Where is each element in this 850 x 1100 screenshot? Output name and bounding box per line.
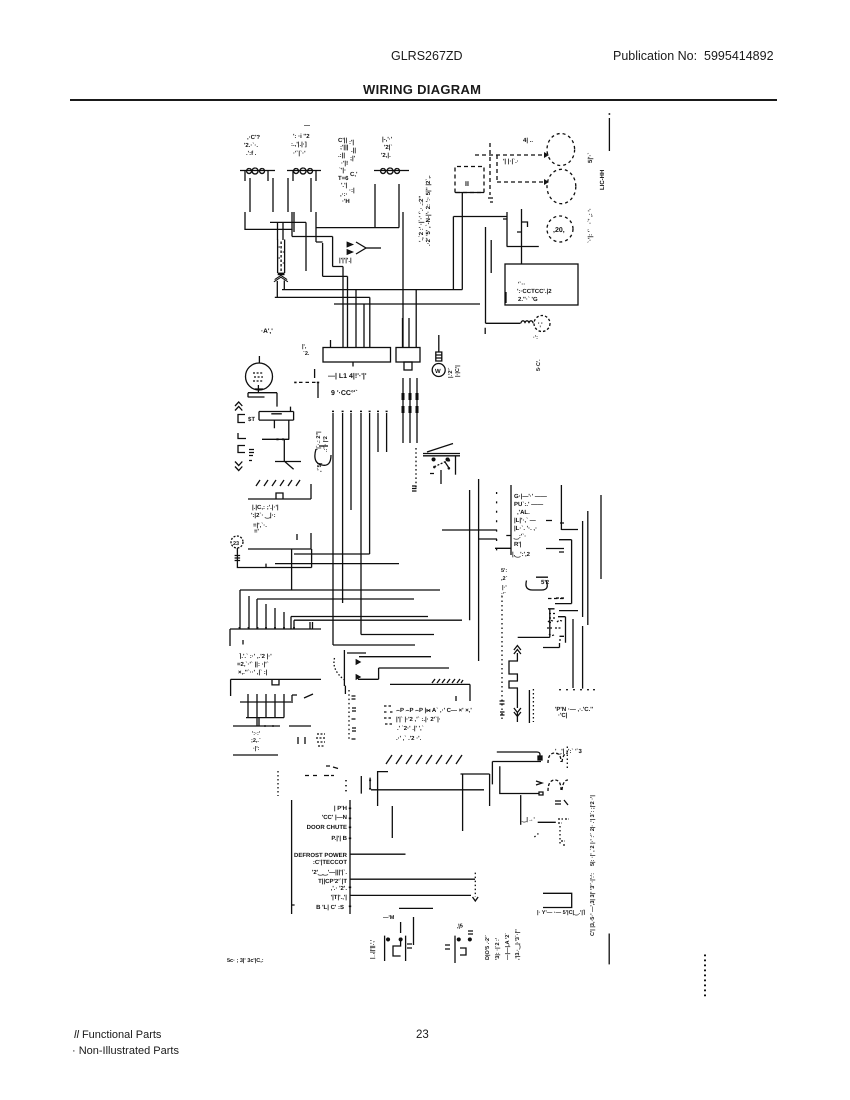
- wire right long v2: [587, 511, 589, 625]
- wire ice maker drops: [453, 193, 462, 290]
- connector tail marks: [305, 766, 338, 776]
- svg-text:'3|: ·|`2 :': '3|: ·|`2 :': [494, 937, 501, 960]
- relay equal marks: [555, 800, 568, 805]
- thermal fuse body: [436, 352, 442, 361]
- svg-text:'| |·|`.·: '| |·|`.·: [503, 158, 519, 165]
- label SI rotated: [587, 153, 606, 224]
- svg-text:—'M: —'M: [383, 915, 395, 921]
- svg-text:|',: |',: [302, 344, 307, 350]
- svg-text:‿:'`·: ‿:'`·: [513, 533, 526, 540]
- svg-text:.:||: .:||: [338, 152, 345, 159]
- wire mesh risers: [323, 243, 370, 348]
- wire CN-B risers: [403, 290, 417, 348]
- heater arrows symbol: [347, 242, 353, 255]
- harness splice blobs: [403, 393, 417, 413]
- footer functional parts note: [74, 1029, 161, 1041]
- svg-text:5':: 5':: [501, 568, 507, 574]
- svg-text:'2'‿‿'—|||'|`.: '2'‿‿'—|||'|`.: [312, 869, 347, 876]
- svg-text:`'|·: `'|·: [339, 167, 346, 174]
- run capacitor text column: [338, 137, 350, 205]
- wire damper pins: [262, 420, 289, 461]
- door switch conn label rotated: [370, 939, 376, 959]
- svg-text:|'|` |·'2 ,'` :.|· 2'`|·: |'|` |·'2 ,'` :.|· 2'`|·: [396, 716, 441, 723]
- wire mid bus H2: [275, 563, 399, 565]
- wire junction h: [270, 212, 323, 271]
- svg-text:PU`:.' ——: PU`:.' ——: [514, 501, 543, 508]
- wire dashed lamp feed 2: [497, 181, 544, 183]
- wire V7 long: [469, 490, 471, 620]
- defrost thermostat contact line: [359, 656, 431, 658]
- svg-text:,·C'?: ,·C'?: [247, 134, 260, 141]
- svg-text:·:|: ·:|: [349, 187, 355, 194]
- interior lamp 23: [231, 536, 243, 548]
- svg-text:;2,.`: ;2,.`: [251, 737, 261, 744]
- damper pin dots: [278, 438, 284, 440]
- harness 3-wire bundle: [403, 378, 417, 443]
- svg-text:·':: ·':: [533, 335, 538, 341]
- wire center drop: [291, 549, 293, 590]
- lamp 23 base coil: [235, 548, 241, 561]
- svg-text:'|`·.: 2''|: '|`·.: 2''|: [315, 431, 322, 450]
- dotted column marks: [500, 701, 505, 715]
- wire relay coil2 feed: [492, 762, 541, 785]
- water valve marks: [533, 335, 542, 371]
- wire thermostat out: [350, 894, 471, 896]
- thermal fuse lead: [438, 335, 440, 352]
- wire bundle turn right b: [361, 634, 434, 636]
- start relay contact blobs: [294, 168, 313, 174]
- FTR marks: [558, 819, 569, 823]
- wire stubs above relay bus: [361, 776, 370, 794]
- svg-text:,20,: ,20,: [553, 227, 565, 234]
- motor hatch: [253, 373, 263, 381]
- wire OL pins: [245, 171, 273, 212]
- wire mid bus H1: [294, 553, 370, 555]
- pcb block left edge: [510, 485, 512, 555]
- page number 23: [416, 1029, 429, 1041]
- thermal fuse label rotated: [447, 365, 461, 378]
- wire dashed lamp feed 1: [475, 154, 544, 156]
- svg-text:':·CCTCC'.|2: ':·CCTCC'.|2: [517, 288, 552, 295]
- defrost thermostat arrow upper: [356, 660, 361, 665]
- fuse contact blob: [278, 273, 285, 276]
- wire heater top feed: [518, 609, 550, 638]
- svg-text:',': ',': [538, 322, 543, 329]
- svg-text:,|5: ,|5: [456, 923, 463, 930]
- svg-text:,'AL.: ,'AL.: [517, 509, 530, 516]
- tree dots: [265, 725, 273, 727]
- dots row: [560, 689, 594, 690]
- label damper: [248, 416, 255, 423]
- marks pair: [298, 737, 305, 744]
- bottom rotated text block: [484, 929, 521, 960]
- relay coil1: [548, 753, 568, 763]
- svg-text:5c· ; 3|' 3c'|C,:: 5c· ; 3|' 3c'|C,:: [227, 958, 264, 964]
- bracket corner left: [378, 772, 388, 806]
- svg-text:·'C|: ·'C|: [558, 712, 568, 719]
- text HP IN row: [555, 706, 594, 755]
- svg-text:23: 23: [233, 541, 239, 547]
- wire relay bus long: [371, 789, 484, 791]
- marks above: [561, 841, 566, 845]
- fan motor text: [501, 568, 508, 598]
- svg-text:'.'|: '.'|: [341, 182, 348, 189]
- svg-text:·'`|`·': ·'`|`·': [293, 150, 306, 157]
- wire link drop: [315, 369, 318, 398]
- schematic id text: [227, 958, 264, 964]
- label lamp rotated: [587, 229, 594, 243]
- svg-text:5'2: 5'2: [541, 579, 550, 586]
- connector CN-B tab: [404, 362, 412, 370]
- svg-text:'CC' |—N: 'CC' |—N: [322, 814, 347, 821]
- svg-text:'2|`: '2|`: [384, 144, 392, 151]
- svg-text:4| ..: 4| ..: [523, 137, 533, 144]
- comb C text rows: [251, 504, 279, 535]
- wire start relay pins: [288, 171, 316, 212]
- wire bus N: [275, 296, 370, 298]
- wire relay coil1 feed: [497, 752, 540, 756]
- connector box5: [390, 684, 470, 701]
- svg-text:⌢P ⌢P ⌢P |⋈ A` ,·' C— ×' ×,': ⌢P ⌢P ⌢P |⋈ A` ,·' C— ×' ×,': [396, 707, 472, 714]
- wire right pair down: [573, 619, 583, 689]
- start relay symbol: [287, 170, 321, 172]
- relay dotted edge: [566, 747, 568, 771]
- relay coil1 pin square: [538, 756, 542, 760]
- svg-text:|.'2'`: |.'2'`: [447, 367, 454, 378]
- connector block CN-A: [323, 348, 391, 363]
- svg-text:,'.· '2'.: ,'.· '2'.: [331, 885, 348, 892]
- chevron marks lower: [235, 462, 242, 471]
- control board labels: [294, 805, 348, 911]
- svg-text:—| L1 4|!'·'|': —| L1 4|!'·'|': [328, 372, 367, 380]
- comb connector E: [230, 629, 321, 646]
- run capacitor blobs: [381, 168, 400, 174]
- wire heater tap: [366, 247, 381, 249]
- svg-text:|,‿':',2: |,‿':',2: [512, 551, 531, 558]
- wire FTR tap: [538, 821, 556, 823]
- motor dash-dot link: [295, 382, 318, 384]
- svg-text:·'H: ·'H: [342, 198, 350, 205]
- svg-text:`·'|: '`: `·'|: '`: [587, 229, 594, 243]
- rotated text column inner: [315, 431, 329, 472]
- svg-text:B 'L| C' :S: B 'L| C' :S: [316, 904, 344, 911]
- comb connector F: [231, 679, 321, 696]
- wire hp column: [528, 690, 530, 723]
- svg-text:': ·i ''2: ': ·i ''2: [293, 133, 310, 140]
- comb connector C: [248, 484, 311, 499]
- svg-text:=2,`·'` ||: ·|'`: =2,`·'` ||: ·|'`: [237, 661, 269, 668]
- bracket contacts left: [238, 415, 246, 453]
- chevron marks upper: [235, 402, 242, 411]
- wire coil2 bottom feed: [500, 766, 539, 793]
- svg-text:·A',': ·A',': [261, 328, 273, 335]
- run capacitor CAP text: [381, 136, 393, 159]
- curly marks top right of relay: [547, 621, 563, 636]
- compressor box text: [517, 281, 552, 303]
- wire aux drop: [391, 806, 393, 838]
- start relay text: [291, 123, 310, 157]
- wire misc drops to comb E: [249, 596, 313, 629]
- svg-text:|'|'|'.|: |'|'|'.|: [339, 257, 352, 264]
- box5 diagonal hatch row: [386, 755, 462, 764]
- svg-text:|·|C'|: |·|C'|: [455, 365, 461, 377]
- wire defrost timer feed: [453, 216, 507, 218]
- defrost heater zigzag: [509, 653, 517, 708]
- connector CN-A text: [328, 372, 367, 397]
- compressor box: [505, 264, 578, 305]
- tree text block: [251, 731, 261, 752]
- drain trough label: [537, 909, 585, 916]
- connector E text rows: [237, 653, 272, 676]
- overload protector OL text: [244, 134, 260, 157]
- svg-text:;|': ;|': [350, 155, 356, 162]
- freezer lamp 2: [547, 169, 576, 203]
- wire comp1 junction U: [245, 212, 292, 229]
- rotated harness text column: [589, 795, 596, 936]
- relay coil2 marks: [536, 781, 543, 795]
- svg-text:.' `2·' .|' ',`: .' `2·' .|' ',`: [397, 725, 424, 732]
- header model number: [391, 49, 463, 63]
- ice maker box: [455, 167, 484, 193]
- wire switch drop: [441, 470, 497, 530]
- rocker switch dashed feed: [415, 448, 417, 490]
- wire right net a: [560, 485, 578, 530]
- heater label: [339, 257, 352, 264]
- svg-text:.||: .||: [351, 147, 356, 154]
- comb connector C hatches: [256, 480, 300, 486]
- svg-text:C'||: C'||: [338, 137, 347, 144]
- svg-text:|-,'·': |-,'·': [382, 136, 393, 143]
- footer non-illustrated parts note: [72, 1045, 179, 1057]
- svg-text:|_,||'||.',': |_,||'||.',': [370, 939, 376, 959]
- svg-text:'.,`2 :' ·|`·' '`.· .:2'': '.,`2 :' ·|`·' '`.· .:2'': [418, 195, 425, 242]
- svg-text:|L|'·,` —: |L|'·,` —: [514, 517, 536, 524]
- svg-text:—: —: [304, 123, 310, 129]
- svg-text:;'|||: ;'|||: [340, 144, 349, 151]
- defrost thermostat lead: [344, 650, 366, 694]
- svg-text:,'|3.·‿|·'3`·|'': ,'|3.·‿|·'3`·|'': [514, 929, 521, 960]
- power cord text column: [418, 175, 432, 246]
- wire right long v1: [582, 521, 584, 617]
- svg-text:C'| |3,·5·' —',3| 3|' '3'`·|':: C'| |3,·5·' —',3| 3|' '3'`·|':':: [589, 873, 596, 936]
- svg-text:':·:': ':·:': [252, 731, 261, 737]
- rocker switch contacts: [455, 456, 457, 475]
- svg-text:.':f .: .':f .: [246, 150, 257, 157]
- marks F box: [543, 609, 560, 648]
- tail dots: [345, 780, 347, 791]
- svg-text:·`' ,: '·: ·`' ,: '·: [587, 208, 594, 224]
- defrost timer switch: [507, 209, 539, 247]
- wire lamp 23: [237, 549, 311, 568]
- label A1: [261, 328, 273, 335]
- drain trough heater box: [543, 893, 572, 907]
- wire bundle turn right a: [333, 644, 415, 646]
- pcb pin dot column: [496, 492, 498, 556]
- label FTR: [521, 817, 535, 823]
- svg-text:$T: $T: [248, 416, 255, 423]
- svg-text::.,'|.|·]: :.,'|.|·]: [291, 141, 307, 148]
- wire motor top stub: [258, 356, 260, 363]
- wire V6 long: [478, 479, 480, 661]
- svg-text:5·C'.: 5·C'.: [536, 359, 542, 371]
- wire H7 pair: [291, 617, 462, 630]
- wire motor bottom: [248, 385, 277, 407]
- damper control body: [259, 407, 294, 421]
- wire H5: [257, 599, 414, 629]
- wire switch to compressor: [521, 247, 523, 265]
- wire defrost power out: [350, 853, 406, 855]
- line fuse body: [278, 240, 285, 274]
- svg-text:'2,|.: '2,|.: [381, 152, 391, 159]
- svg-text:LIC-HH: LIC-HH: [599, 170, 606, 190]
- condenser fan cup: [526, 577, 548, 590]
- svg-text:,·:·: ,·:·: [340, 192, 348, 198]
- defrost heater arrows: [514, 646, 521, 655]
- svg-text:G·|—'·' ——: G·|—'·' ——: [514, 493, 547, 500]
- svg-text:.·2' '5' ,`-N-|'· 2: ':· 5|'': .·2' '5' ,`-N-|'· 2: ':· 5|'' |2`,.: [425, 175, 432, 246]
- wire dashed jumper: [496, 155, 498, 182]
- svg-text:| P'H: | P'H: [334, 805, 347, 812]
- pin column marks: [352, 696, 357, 739]
- svg-text:,2`: ,2`: [501, 575, 508, 582]
- svg-text:'`··: '`··: [518, 281, 525, 288]
- svg-text:.:'`· |'2: .:'`· |'2: [322, 436, 329, 452]
- svg-text:'2.·`·.: '2.·`·.: [244, 142, 258, 149]
- svg-text:5|: ·|' ,`2 |·' :'` 2|· .'| 3`: 5|: ·|' ,`2 |·' :'` 2|· .'| 3`: ;|'2 ·'|: [589, 795, 596, 866]
- tree corner marks: [292, 694, 313, 703]
- defrost thermostat lower branch: [358, 668, 449, 679]
- lamp 20w circle: [547, 216, 573, 242]
- dotted pin column: [501, 596, 503, 720]
- svg-text:≡': ≡': [254, 528, 260, 535]
- svg-text:|·': |·': [502, 585, 507, 591]
- svg-text:`2.: `2.: [303, 350, 310, 357]
- wire V6 tap: [479, 538, 497, 540]
- run capacitor symbol: [374, 170, 409, 172]
- board pin dots: [349, 808, 351, 908]
- wire water valve feed: [485, 227, 520, 334]
- title rule: [70, 99, 777, 101]
- evap fan cup symbol: [315, 446, 331, 465]
- pcb text rows: [512, 493, 547, 558]
- svg-text:9 '·CC°'`: 9 '·CC°'`: [331, 389, 358, 397]
- header publication number: [613, 49, 774, 63]
- fuse chevron contacts: [274, 275, 288, 281]
- wire fuse drops: [277, 281, 284, 298]
- relay coil2: [548, 780, 568, 791]
- wire right net marks: [556, 598, 578, 611]
- wire H4: [240, 590, 440, 629]
- marks block: [316, 734, 325, 746]
- defrost heater arrows bottom: [514, 708, 521, 722]
- comb E dots: [240, 627, 295, 628]
- svg-text:|L·`. '·. ,·: |L·`. '·. ,·: [514, 525, 537, 532]
- svg-text:5|'·`: 5|'·`: [587, 153, 594, 163]
- water valve bulb: [534, 316, 550, 332]
- svg-text:|· Y'— ·— 5'|C|‿.'|⌉: |· Y'— ·— 5'|C|‿.'|⌉: [537, 909, 585, 916]
- water valve coil: [521, 321, 533, 324]
- rocker switch bar: [423, 454, 460, 456]
- svg-text:·|':: ·|':: [253, 746, 260, 752]
- svg-text:P.|'| B: P.|'| B: [331, 835, 347, 842]
- svg-text:T||CP'2'`|T: T||CP'2'`|T: [318, 878, 347, 885]
- wire right long v3: [600, 495, 602, 579]
- svg-text::'|: :'|: [349, 139, 354, 146]
- wire relay drop: [520, 795, 522, 825]
- svg-text::C'|TECCOT: :C'|TECCOT: [313, 859, 347, 866]
- wire harness tree: [233, 694, 311, 755]
- wire bottom bus: [399, 907, 433, 909]
- wire compressor run dotted: [474, 873, 476, 897]
- wire bus L1: [282, 289, 462, 291]
- svg-text:'|T|'.,'|: '|T|'.,'|: [331, 894, 348, 901]
- wire stub top right: [608, 118, 610, 151]
- rocker switch lever: [427, 444, 453, 453]
- wire dashed vertical riser: [489, 143, 491, 195]
- wire bus aux: [334, 303, 480, 305]
- small text mid: [302, 344, 310, 357]
- svg-text:'P'N ·— ,·.'C.'': 'P'N ·— ,·.'C.'': [555, 706, 594, 713]
- box5 hatches: [432, 679, 463, 683]
- dotted column far right: [704, 955, 706, 997]
- dotted pin column mid: [348, 690, 350, 740]
- overload protector OL contact blobs: [247, 168, 265, 174]
- svg-text:DOOR CHUTE: DOOR CHUTE: [307, 824, 347, 831]
- evap fan motor circle: [246, 363, 273, 390]
- control board outline: [292, 800, 350, 914]
- freezer lamp 1: [547, 134, 575, 166]
- rocker coil marks: [412, 486, 417, 491]
- wire fuse terminals: [278, 222, 284, 240]
- dotted drop to board: [277, 771, 279, 796]
- bundle top dots: [333, 411, 387, 413]
- pcb right stubs: [495, 521, 564, 549]
- box5 text rows: [396, 707, 472, 742]
- door switch 2: [445, 931, 473, 963]
- svg-text:≡|',`·.: ≡|',`·.: [253, 522, 267, 529]
- svg-text:×,.''`··' ,|` :|: ×,.''`··' ,|` :|: [238, 669, 268, 676]
- svg-text:—|—|,A '2`: —|—|,A '2`: [504, 933, 511, 960]
- wire compressor out: [350, 878, 475, 880]
- overload protector OL symbol: [240, 170, 275, 172]
- wire capacitor pins: [375, 184, 403, 348]
- svg-text:T=6: T=6: [338, 175, 349, 182]
- wire dotted stub: [548, 598, 566, 600]
- svg-text:|.|C,: ;'.|·'|: |.|C,: ;'.|·'|: [252, 504, 279, 511]
- svg-text:⌉.'.` :·' ,.'2 |·': ⌉.'.` :·' ,.'2 |·': [239, 653, 272, 660]
- door switch 1: [383, 915, 463, 930]
- page title: [363, 82, 481, 97]
- svg-text:.·' ,` .'2 ·'.: .·' ,` .'2 ·'.: [396, 735, 422, 742]
- svg-text:D|O'5 .·2'`: D|O'5 .·2'`: [484, 935, 491, 960]
- wire bundle 7 drop: [333, 413, 387, 645]
- wire damper lower: [275, 462, 301, 470]
- coil marks left: [249, 450, 254, 461]
- small connector box right: [558, 617, 566, 643]
- wire box5 to relays corner: [461, 774, 490, 831]
- wire switch ticks: [503, 219, 522, 232]
- wire comp2-comp4 bus: [316, 211, 399, 228]
- svg-text:‿|→': ‿|→': [521, 817, 535, 823]
- defrost thermostat arrow lower: [356, 675, 361, 680]
- defrost thermostat dotted capillary: [334, 658, 345, 680]
- wire right net b: [555, 540, 572, 604]
- wire right stub bottom: [608, 934, 610, 965]
- compressor pin tick: [491, 240, 506, 303]
- svg-text:2.''·` 'G: 2.''·` 'G: [518, 296, 538, 303]
- svg-text:C,': C,': [350, 171, 358, 178]
- marks under lamp riser: [488, 198, 493, 202]
